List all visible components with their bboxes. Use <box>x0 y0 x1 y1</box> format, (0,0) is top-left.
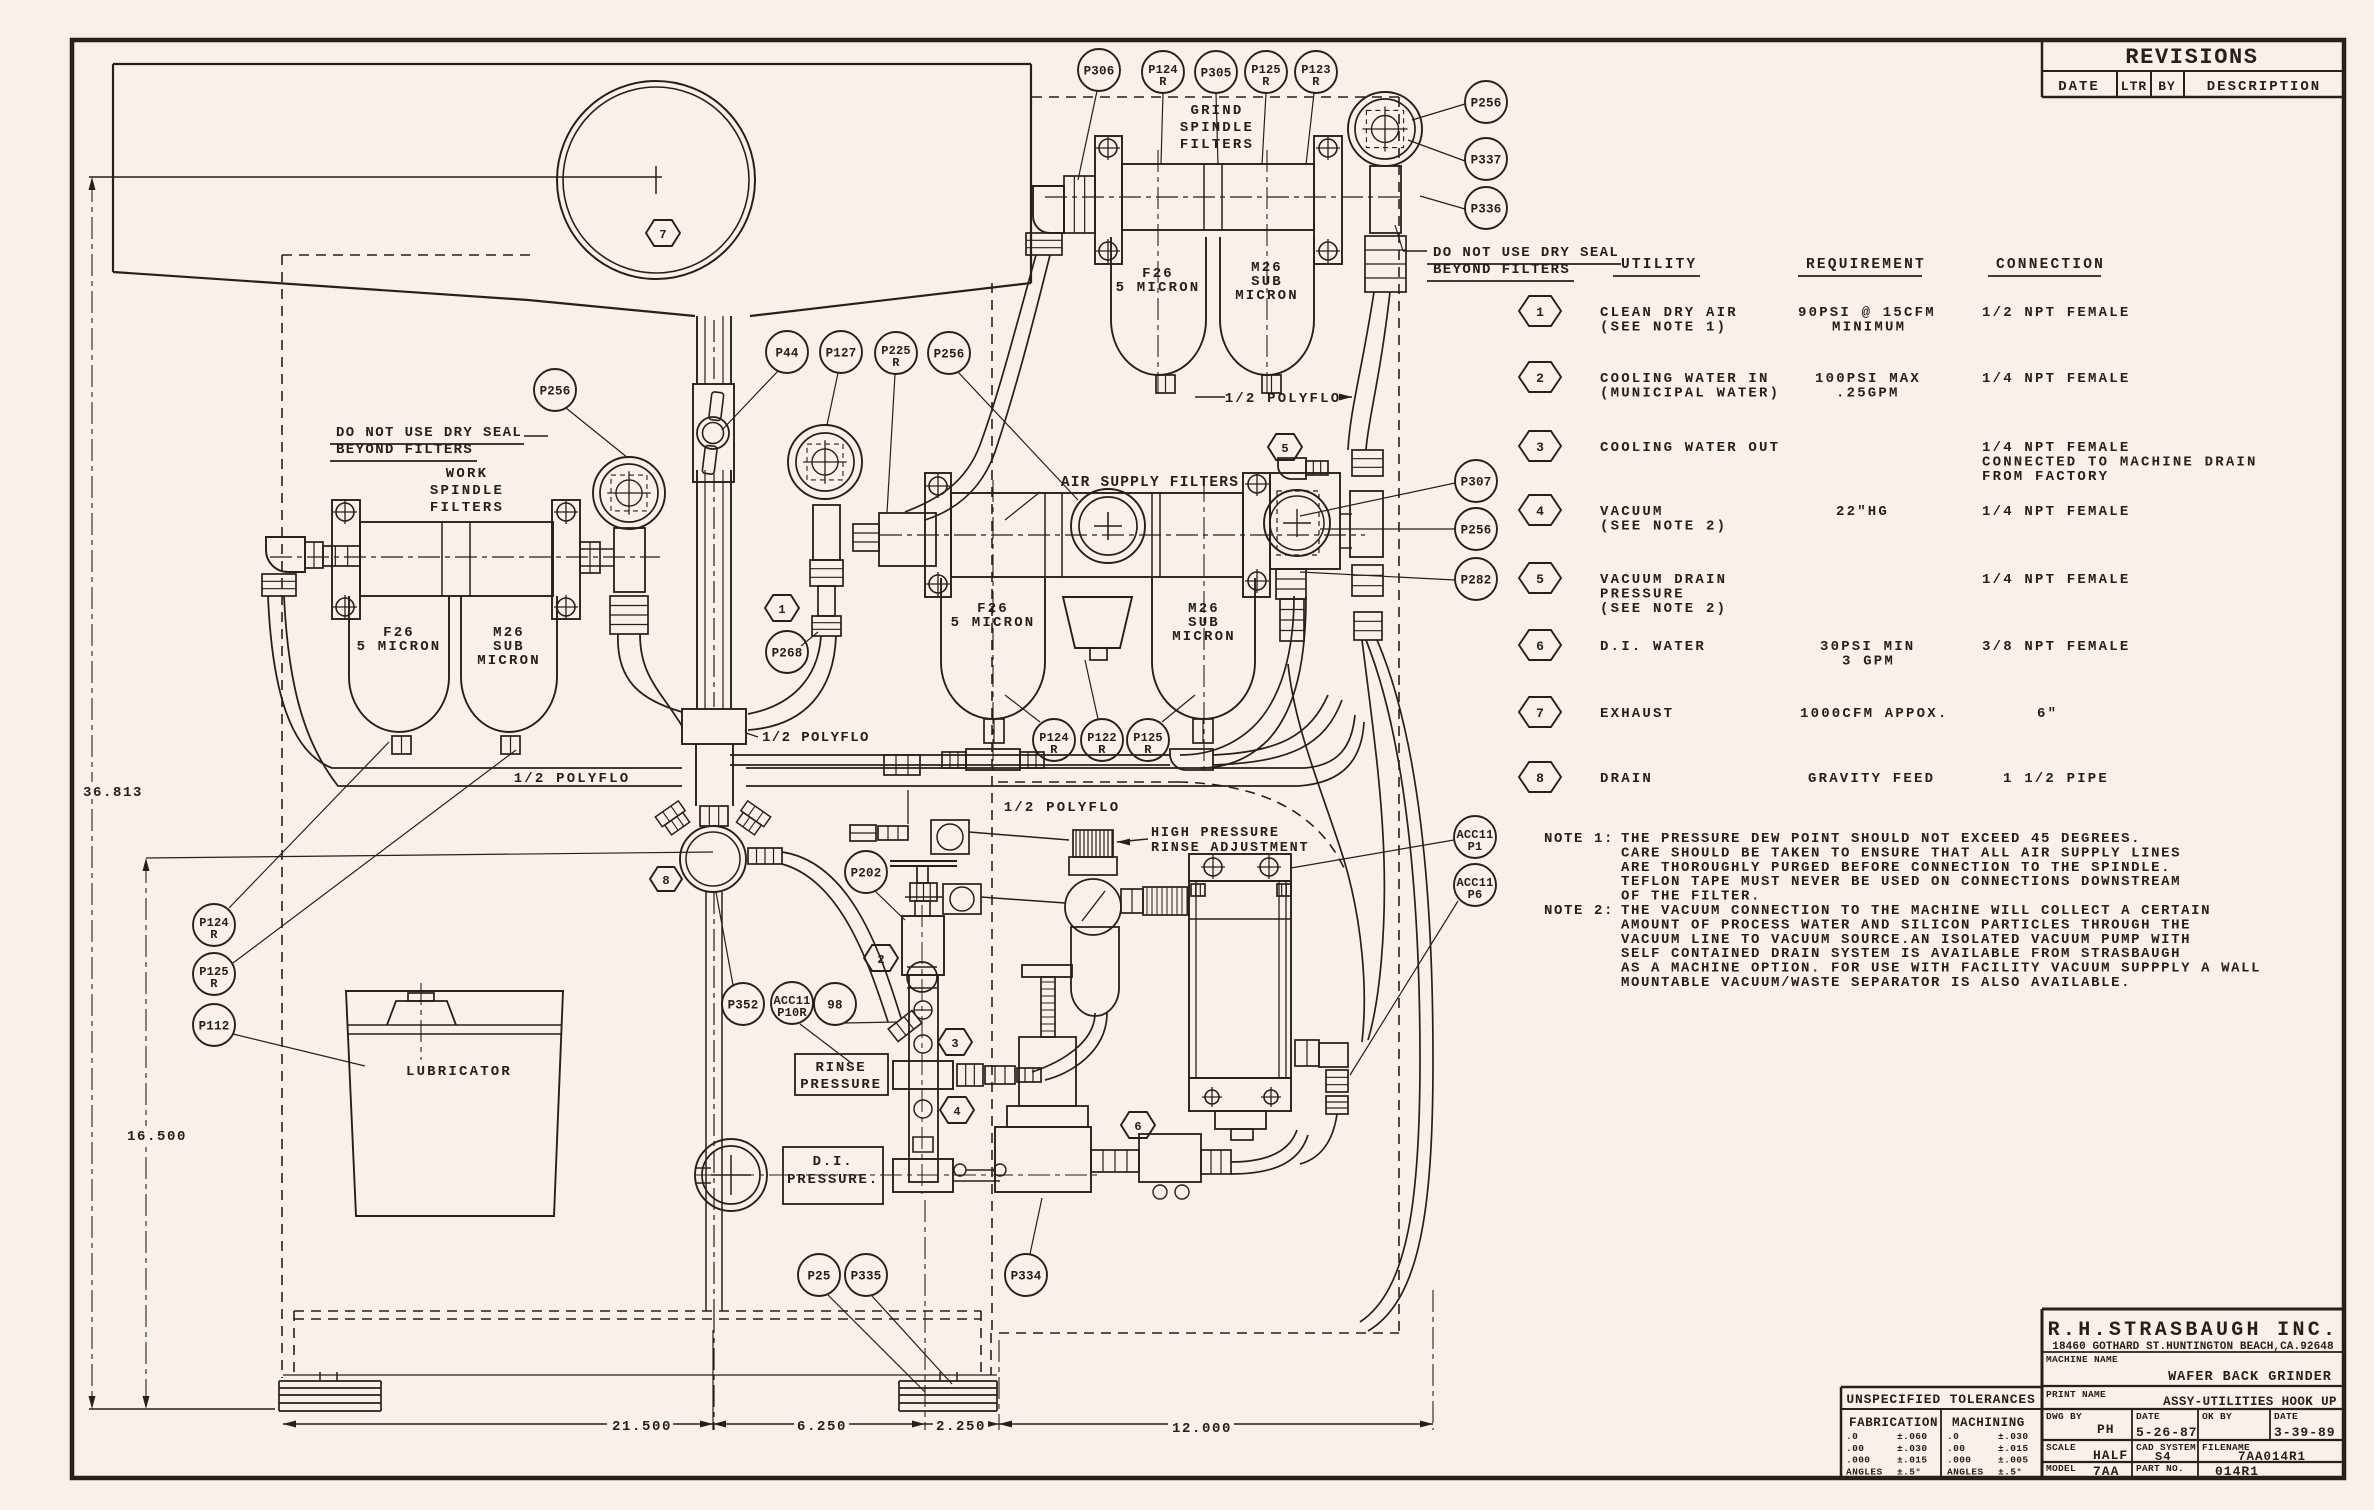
svg-text:DO NOT USE DRY SEAL: DO NOT USE DRY SEAL <box>336 425 522 441</box>
svg-text:ANGLES: ANGLES <box>1947 1466 1984 1477</box>
svg-text:DATE: DATE <box>2136 1411 2160 1422</box>
svg-text:PRINT NAME: PRINT NAME <box>2046 1389 2106 1400</box>
svg-text:±.5°: ±.5° <box>1998 1466 2022 1477</box>
svg-text:7: 7 <box>1536 706 1544 721</box>
svg-text:RINSE: RINSE <box>815 1060 866 1076</box>
svg-text:PRESSURE: PRESSURE <box>800 1077 882 1093</box>
svg-text:6": 6" <box>2037 706 2058 722</box>
svg-text:DATE: DATE <box>2058 79 2100 95</box>
svg-text:7AA: 7AA <box>2093 1464 2119 1479</box>
svg-text:22"HG: 22"HG <box>1836 504 1889 520</box>
svg-text:HALF: HALF <box>2093 1448 2128 1463</box>
svg-text:3 GPM: 3 GPM <box>1842 654 1895 670</box>
svg-text:WORK: WORK <box>446 466 488 482</box>
svg-text:.000: .000 <box>1846 1455 1870 1466</box>
svg-text:P337: P337 <box>1471 154 1502 168</box>
svg-text:7AA014R1: 7AA014R1 <box>2238 1450 2306 1464</box>
svg-text:P305: P305 <box>1201 67 1232 81</box>
svg-text:P307: P307 <box>1461 476 1492 490</box>
svg-text:PRESSURE.: PRESSURE. <box>787 1172 879 1188</box>
svg-text:BEYOND FILTERS: BEYOND FILTERS <box>336 442 473 458</box>
svg-text:DESCRIPTION: DESCRIPTION <box>2207 79 2321 95</box>
svg-text:BEYOND FILTERS: BEYOND FILTERS <box>1433 262 1570 278</box>
svg-text:3: 3 <box>1536 440 1544 455</box>
svg-text:DATE: DATE <box>2274 1411 2298 1422</box>
svg-text:P44: P44 <box>775 347 798 361</box>
svg-text:DWG BY: DWG BY <box>2046 1411 2082 1422</box>
svg-text:P256: P256 <box>540 385 571 399</box>
svg-text:1/2 POLYFLO: 1/2 POLYFLO <box>514 771 631 787</box>
svg-text:.25GPM: .25GPM <box>1836 386 1900 402</box>
svg-text:.000: .000 <box>1947 1455 1971 1466</box>
svg-text:P335: P335 <box>851 1270 882 1284</box>
svg-text:1/2 POLYFLO: 1/2 POLYFLO <box>1225 391 1342 407</box>
svg-text:98: 98 <box>827 999 842 1013</box>
svg-text:±.005: ±.005 <box>1998 1455 2029 1466</box>
svg-text:6.250: 6.250 <box>797 1419 847 1435</box>
svg-text:FROM FACTORY: FROM FACTORY <box>1982 469 2109 485</box>
svg-text:GRIND: GRIND <box>1190 103 1243 119</box>
svg-text:4: 4 <box>1536 504 1544 519</box>
svg-text:.00: .00 <box>1846 1443 1864 1454</box>
svg-text:18460 GOTHARD ST.HUNTINGTON BE: 18460 GOTHARD ST.HUNTINGTON BEACH,CA.926… <box>2052 1341 2334 1353</box>
svg-text:2: 2 <box>877 953 884 967</box>
svg-text:5-26-87: 5-26-87 <box>2136 1425 2198 1440</box>
svg-text:1/2 NPT FEMALE: 1/2 NPT FEMALE <box>1982 305 2130 321</box>
svg-text:P256: P256 <box>1461 524 1492 538</box>
svg-text:(SEE NOTE 2): (SEE NOTE 2) <box>1600 601 1727 617</box>
svg-text:P112: P112 <box>199 1020 230 1034</box>
svg-text:D.I. WATER: D.I. WATER <box>1600 639 1706 655</box>
svg-text:±.060: ±.060 <box>1897 1431 1928 1442</box>
svg-text:5: 5 <box>1281 442 1288 456</box>
svg-text:P352: P352 <box>728 999 759 1013</box>
svg-text:S4: S4 <box>2155 1450 2171 1464</box>
svg-text:ANGLES: ANGLES <box>1846 1466 1883 1477</box>
svg-text:6: 6 <box>1536 639 1544 654</box>
svg-text:5 MICRON: 5 MICRON <box>357 639 442 655</box>
svg-text:SPINDLE: SPINDLE <box>1180 120 1254 136</box>
svg-text:P127: P127 <box>826 347 857 361</box>
svg-text:D.I.: D.I. <box>813 1154 854 1170</box>
svg-text:EXHAUST: EXHAUST <box>1600 706 1674 722</box>
svg-text:1/2 POLYFLO: 1/2 POLYFLO <box>1004 800 1121 816</box>
svg-text:1: 1 <box>1536 305 1544 320</box>
svg-text:3-39-89: 3-39-89 <box>2274 1425 2336 1440</box>
svg-text:8: 8 <box>1536 771 1544 786</box>
svg-text:R: R <box>210 928 218 942</box>
svg-text:1000CFM APPOX.: 1000CFM APPOX. <box>1800 706 1948 722</box>
svg-text:1 1/2 PIPE: 1 1/2 PIPE <box>2003 771 2109 787</box>
svg-text:6: 6 <box>1134 1120 1141 1134</box>
svg-text:(SEE NOTE 2): (SEE NOTE 2) <box>1600 519 1727 535</box>
svg-text:3: 3 <box>951 1037 958 1051</box>
svg-text:±.5°: ±.5° <box>1897 1466 1921 1477</box>
svg-text:REQUIREMENT: REQUIREMENT <box>1806 257 1926 273</box>
svg-text:REVISIONS: REVISIONS <box>2125 45 2258 70</box>
svg-text:±.030: ±.030 <box>1998 1431 2029 1442</box>
svg-text:12.000: 12.000 <box>1172 1421 1232 1437</box>
svg-text:MODEL: MODEL <box>2046 1463 2076 1474</box>
svg-text:P268: P268 <box>772 647 803 661</box>
svg-text:SPINDLE: SPINDLE <box>430 483 504 499</box>
svg-text:CONNECTION: CONNECTION <box>1996 257 2105 273</box>
svg-text:1: 1 <box>778 603 785 617</box>
svg-text:P10R: P10R <box>777 1006 807 1020</box>
svg-text:GRAVITY FEED: GRAVITY FEED <box>1808 771 1935 787</box>
svg-text:LUBRICATOR: LUBRICATOR <box>406 1064 512 1080</box>
svg-text:1/2 POLYFLO: 1/2 POLYFLO <box>762 730 870 746</box>
svg-text:WAFER BACK GRINDER: WAFER BACK GRINDER <box>2168 1370 2332 1385</box>
svg-text:P256: P256 <box>1471 97 1502 111</box>
svg-text:NOTE 1:: NOTE 1: <box>1544 831 1614 847</box>
svg-text:MOUNTABLE VACUUM/WASTE SEPARAT: MOUNTABLE VACUUM/WASTE SEPARATOR IS ALSO… <box>1621 975 2131 991</box>
svg-text:HIGH PRESSURE: HIGH PRESSURE <box>1151 826 1280 841</box>
svg-text:AIR SUPPLY FILTERS: AIR SUPPLY FILTERS <box>1061 475 1239 491</box>
svg-text:P256: P256 <box>934 348 965 362</box>
svg-text:OK BY: OK BY <box>2202 1411 2232 1422</box>
svg-text:P202: P202 <box>851 867 882 881</box>
svg-text:PART NO.: PART NO. <box>2136 1463 2184 1474</box>
svg-text:R.H.STRASBAUGH INC.: R.H.STRASBAUGH INC. <box>2048 1319 2339 1342</box>
svg-text:014R1: 014R1 <box>2215 1464 2259 1479</box>
svg-text:LTR: LTR <box>2121 79 2147 94</box>
svg-text:2: 2 <box>1536 371 1544 386</box>
svg-text:.0: .0 <box>1947 1431 1959 1442</box>
svg-text:P1: P1 <box>1468 840 1483 854</box>
svg-text:8: 8 <box>662 874 669 888</box>
svg-text:1/4 NPT FEMALE: 1/4 NPT FEMALE <box>1982 371 2130 387</box>
svg-text:NOTE 2:: NOTE 2: <box>1544 903 1614 919</box>
svg-text:16.500: 16.500 <box>127 1129 187 1145</box>
svg-text:SCALE: SCALE <box>2046 1442 2076 1453</box>
svg-text:UTILITY: UTILITY <box>1621 257 1697 273</box>
svg-text:P25: P25 <box>807 1270 830 1284</box>
svg-text:COOLING WATER OUT: COOLING WATER OUT <box>1600 440 1780 456</box>
svg-text:FILTERS: FILTERS <box>1180 137 1254 153</box>
svg-text:R: R <box>1312 75 1320 89</box>
svg-text:P336: P336 <box>1471 203 1502 217</box>
svg-text:R: R <box>1262 75 1270 89</box>
svg-text:MACHINING: MACHINING <box>1952 1416 2025 1430</box>
svg-text:MACHINE NAME: MACHINE NAME <box>2046 1354 2118 1365</box>
svg-text:(MUNICIPAL WATER): (MUNICIPAL WATER) <box>1600 386 1780 402</box>
svg-text:±.015: ±.015 <box>1897 1455 1928 1466</box>
svg-text:ASSY-UTILITIES HOOK UP: ASSY-UTILITIES HOOK UP <box>2163 1395 2337 1409</box>
svg-text:R: R <box>892 356 900 370</box>
svg-text:7: 7 <box>659 228 666 242</box>
svg-text:1/4 NPT FEMALE: 1/4 NPT FEMALE <box>1982 572 2130 588</box>
svg-text:MICRON: MICRON <box>477 653 541 669</box>
svg-text:R: R <box>210 977 218 991</box>
svg-text:.00: .00 <box>1947 1443 1965 1454</box>
svg-text:BY: BY <box>2158 79 2176 94</box>
svg-text:FILTERS: FILTERS <box>430 500 504 516</box>
svg-text:1/4 NPT FEMALE: 1/4 NPT FEMALE <box>1982 504 2130 520</box>
svg-text:PH: PH <box>2097 1422 2115 1437</box>
svg-text:.0: .0 <box>1846 1431 1858 1442</box>
svg-text:R: R <box>1159 75 1167 89</box>
svg-text:5: 5 <box>1536 572 1544 587</box>
svg-text:DRAIN: DRAIN <box>1600 771 1653 787</box>
svg-text:DO NOT USE DRY SEAL: DO NOT USE DRY SEAL <box>1433 245 1619 261</box>
svg-text:21.500: 21.500 <box>612 1419 672 1435</box>
svg-text:MINIMUM: MINIMUM <box>1832 320 1906 336</box>
svg-text:(SEE NOTE 1): (SEE NOTE 1) <box>1600 320 1727 336</box>
svg-text:3/8 NPT FEMALE: 3/8 NPT FEMALE <box>1982 639 2130 655</box>
svg-text:UNSPECIFIED TOLERANCES: UNSPECIFIED TOLERANCES <box>1846 1392 2035 1407</box>
svg-text:±.015: ±.015 <box>1998 1443 2029 1454</box>
svg-text:±.030: ±.030 <box>1897 1443 1928 1454</box>
svg-text:P282: P282 <box>1461 574 1492 588</box>
svg-text:P334: P334 <box>1011 1270 1042 1284</box>
svg-text:P306: P306 <box>1084 65 1115 79</box>
svg-text:36.813: 36.813 <box>83 785 143 801</box>
svg-text:P6: P6 <box>1468 888 1483 902</box>
svg-text:4: 4 <box>953 1105 960 1119</box>
svg-text:2.250: 2.250 <box>936 1419 986 1435</box>
svg-text:FABRICATION: FABRICATION <box>1849 1416 1938 1430</box>
